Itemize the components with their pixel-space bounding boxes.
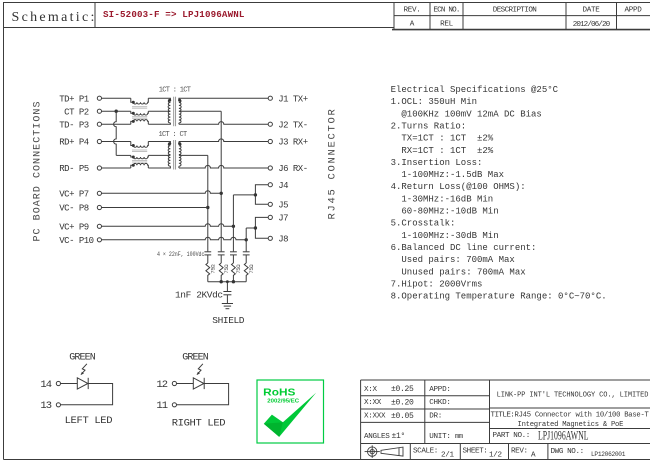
RoHS checkmark [264,393,316,437]
svg-text:8.Operating Temperature Range:: 8.Operating Temperature Range: 0°C~70°C. [391,292,607,302]
pin VC- P10 terminal [97,238,101,242]
wire J4/J5 center to riser [233,194,255,196]
choke CM2 winding a [131,142,149,148]
svg-text:SHEET:: SHEET: [463,448,488,456]
svg-text:1-100MHz:-30dB Min: 1-100MHz:-30dB Min [391,231,499,241]
svg-text:DR:: DR: [429,413,442,421]
vertical bus TX center-tap xB [220,111,222,251]
vertical bus RX center-tap xA [207,155,209,251]
svg-text:TITLE:: TITLE: [491,412,515,420]
svg-text:REL: REL [440,20,454,28]
svg-text:1.OCL: 350uH Min: 1.OCL: 350uH Min [391,97,477,107]
svg-text:VC- P10: VC- P10 [59,236,93,246]
wire choke1 to T1 primary bottom [148,123,170,124]
transformer T1 core [173,97,175,127]
svg-text:GREEN: GREEN [182,353,208,364]
svg-text:RIGHT LED: RIGHT LED [172,418,226,430]
svg-text:RD+ P4: RD+ P4 [59,138,89,148]
svg-text:mm: mm [455,433,463,441]
svg-text:SI-52003-F => LPJ1096AWNL: SI-52003-F => LPJ1096AWNL [103,9,245,20]
transformer T2 secondary winding [179,143,181,166]
wire J6 RX- [178,166,180,168]
svg-text:RD- P5: RD- P5 [59,164,89,174]
wire choke2 to T2 primary top [148,142,170,143]
wire P5 to choke [102,167,131,169]
wire J7/J8 center to riser [246,227,255,229]
resistor R4 75 Ohm [244,263,248,282]
choke CM2 winding b [131,155,149,158]
svg-text:11: 11 [156,400,167,412]
svg-text:1nF 2KVdc: 1nF 2KVdc [175,290,223,301]
wire choke2 to T2 primary center [148,154,170,156]
wire P2 to choke [102,110,131,112]
svg-text:PC BOARD CONNECTIONS: PC BOARD CONNECTIONS [32,100,43,241]
svg-text:1CT : 1CT: 1CT : 1CT [159,87,191,95]
pin J6 terminal [268,166,272,170]
projection symbol [365,445,403,458]
svg-text:@100KHz 100mV 12mA DC Bias: @100KHz 100mV 12mA DC Bias [391,109,542,119]
svg-text:ECN NO.: ECN NO. [433,7,459,15]
svg-text:±1°: ±1° [392,432,406,441]
svg-text:LPJ1096AWNL: LPJ1096AWNL [538,428,589,442]
svg-text:GREEN: GREEN [69,353,95,364]
svg-text:J3 RX+: J3 RX+ [278,138,308,148]
pin RD- P5 terminal [97,166,101,170]
wire P9 to J4/J5 riser [102,224,234,227]
svg-text:A: A [531,451,536,459]
svg-text:UNIT:: UNIT: [429,433,450,441]
pin VC+ P7 terminal [97,191,101,195]
choke CM1 winding b [131,111,149,115]
svg-text:7.Hipot: 2000Vrms: 7.Hipot: 2000Vrms [391,279,483,289]
svg-text:LINK-PP INT'L TECHNOLOGY CO.,: LINK-PP INT'L TECHNOLOGY CO., LIMITED [497,391,649,399]
revision table [393,3,395,30]
pin 14 terminal [56,381,60,385]
choke CM2 winding c [131,163,149,168]
title cell Schematic [4,3,395,28]
svg-text:ANGLES: ANGLES [364,433,390,441]
svg-text:60-80MHz:-10dB Min: 60-80MHz:-10dB Min [391,207,499,217]
wire LEFT LED cathode loop [61,384,113,405]
svg-text:5.Crosstalk:: 5.Crosstalk: [391,219,456,229]
pin RD+ P4 terminal [97,139,101,143]
pin TD- P3 terminal [97,122,101,126]
wire choke1 to T1 primary center [148,110,170,112]
svg-text:TD+ P1: TD+ P1 [59,94,89,104]
svg-text:1-30MHz:-16dB Min: 1-30MHz:-16dB Min [391,194,494,204]
capacitor C4 22nF [243,251,250,253]
svg-text:LEFT LED: LEFT LED [65,415,113,427]
svg-text:X:XX: X:XX [364,399,382,407]
pin J2 terminal [268,122,272,126]
wire P10 to J7/J8 riser [102,237,247,240]
svg-text:RX=1CT : 1CT ±2%: RX=1CT : 1CT ±2% [391,146,494,156]
svg-text:DESCRIPTION: DESCRIPTION [493,7,537,15]
pin J7 terminal [268,215,272,219]
pin J4 terminal [268,183,272,187]
pin VC+ P9 terminal [97,224,101,228]
wire P1 to choke [102,97,131,99]
pin VC- P8 terminal [97,205,101,209]
svg-text:CHKD:: CHKD: [429,399,450,407]
svg-text:Used pairs: 700mA Max: Used pairs: 700mA Max [391,255,515,265]
transformer T2 core [173,140,175,170]
svg-text:DATE: DATE [582,7,600,15]
riser J7/J8 to C4 [245,228,247,251]
svg-text:Electrical Specifications @25°: Electrical Specifications @25°C [391,85,559,95]
title block [360,380,362,460]
svg-text:14: 14 [40,379,51,391]
resistor R3 75 Ohm [232,263,236,282]
riser J4/J5 to C3 [232,195,234,252]
svg-text:TD- P3: TD- P3 [59,120,89,130]
svg-text:12: 12 [156,379,167,391]
wire bus to C5 [226,282,228,292]
svg-text:X:X: X:X [364,386,378,394]
svg-text:J7: J7 [278,214,288,224]
svg-text:VC+ P9: VC+ P9 [59,223,89,233]
svg-text:13: 13 [40,400,51,412]
wire choke2 to T2 primary bottom [148,166,170,168]
LED diode RIGHT LED [193,378,204,389]
wire RIGHT LED cathode loop [177,384,229,405]
svg-text:75Ω: 75Ω [210,264,217,274]
choke CM1 winding c [131,120,149,125]
svg-text:1-100MHz:-1.5dB Max: 1-100MHz:-1.5dB Max [391,170,504,180]
svg-text:Unused pairs: 700mA Max: Unused pairs: 700mA Max [391,267,526,277]
LED diode LEFT LED [77,378,88,389]
photon arrow LEFT LED [81,364,87,375]
wire P8 to RX center-tap bus [102,207,208,209]
resistor R2 75 Ohm [219,263,223,282]
capacitor C3 22nF [230,251,237,253]
wire resistor bottom bus [208,281,246,283]
svg-text:±0.05: ±0.05 [391,412,414,421]
svg-text:J2 TX-: J2 TX- [278,120,307,130]
svg-text:3.Insertion Loss:: 3.Insertion Loss: [391,158,483,168]
svg-text:VC+ P7: VC+ P7 [59,190,89,200]
transformer T1 secondary winding [179,100,181,123]
svg-text:2012/06/20: 2012/06/20 [573,21,611,29]
svg-text:1/2: 1/2 [489,451,503,459]
svg-text:RJ45 Connector with 10/100 Bas: RJ45 Connector with 10/100 Base-T [515,412,650,420]
capacitor C1 22nF [204,251,211,253]
svg-text:±0.25: ±0.25 [391,385,414,394]
svg-text:2002/95/EC: 2002/95/EC [267,399,299,405]
wire J7/J8 pair bracket [255,217,268,238]
wire choke1 to T1 primary top [148,98,170,99]
pin 11 terminal [172,403,176,407]
wire J2 TX- [178,123,180,124]
transformer T2 primary winding [168,143,170,166]
svg-text:4 × 22nF, 100Vdc: 4 × 22nF, 100Vdc [157,251,205,258]
svg-text:75Ω: 75Ω [223,264,230,274]
pin J8 terminal [268,236,272,240]
svg-text:J1 TX+: J1 TX+ [278,94,308,104]
pin J1 terminal [268,96,272,100]
svg-text:RJ45 CONNECTOR: RJ45 CONNECTOR [326,107,338,219]
svg-text:6.Balanced DC line current:: 6.Balanced DC line current: [391,243,537,253]
wire J4/J5 pair bracket [255,185,268,205]
svg-text:J8: J8 [278,235,288,245]
svg-text:2.Turns Ratio:: 2.Turns Ratio: [391,121,467,131]
wire RIGHT LED anode [177,383,194,385]
pin 12 terminal [172,381,176,385]
wire J3 RX+ [178,142,180,143]
wire T1 secondary center tap [179,110,221,112]
photon arrow RIGHT LED [197,364,203,375]
svg-text:X:XXX: X:XXX [364,413,386,421]
svg-text:SHIELD: SHIELD [212,315,245,326]
pin CT P2 terminal [97,109,101,113]
svg-text:1CT : CT: 1CT : CT [158,131,187,139]
svg-text:±0.20: ±0.20 [391,399,414,408]
pin J5 terminal [268,202,272,206]
svg-text:SCALE:: SCALE: [413,448,438,456]
pin 13 terminal [56,403,60,407]
wire P7 to TX center-tap bus [102,191,222,194]
wire P3 to choke [102,123,131,125]
svg-text:REV.: REV. [403,7,420,15]
svg-text:VC- P8: VC- P8 [59,204,89,214]
svg-text:RoHS: RoHS [263,386,295,398]
svg-text:75Ω: 75Ω [248,264,255,274]
svg-text:J6 RX-: J6 RX- [278,164,307,174]
svg-text:REV:: REV: [511,448,528,456]
wire T1 secondary top to J1 [179,98,268,99]
svg-text:PART NO.:: PART NO.: [493,432,530,440]
choke CM1 winding a [131,98,149,104]
svg-text:APPD:: APPD: [429,386,450,394]
RoHS logo [257,380,324,443]
pin TD+ P1 terminal [97,96,101,100]
pin J3 terminal [268,139,272,143]
capacitor C2 22nF [218,251,225,253]
svg-text:Schematic:: Schematic: [12,10,97,25]
wire LEFT LED anode [61,383,78,385]
svg-text:LP12062001: LP12062001 [591,451,626,458]
svg-text:75Ω: 75Ω [235,264,242,274]
svg-text:DWG NO.:: DWG NO.: [551,448,584,456]
transformer T1 primary winding [168,100,170,123]
svg-text:TX=1CT : 1CT ±2%: TX=1CT : 1CT ±2% [391,134,494,144]
svg-text:J5: J5 [278,201,288,211]
svg-text:4.Return Loss(@100 OHMS):: 4.Return Loss(@100 OHMS): [391,182,526,192]
svg-text:A: A [410,20,415,28]
svg-text:J4: J4 [278,181,288,191]
wire P4 to choke [102,141,131,143]
svg-text:APPD: APPD [624,7,642,15]
svg-text:CT P2: CT P2 [59,107,89,117]
resistor R1 75 Ohm [206,263,210,282]
choke CM2 core [132,149,147,151]
svg-text:2/1: 2/1 [441,451,455,459]
wire T2 secondary center tap [179,154,208,156]
choke CM1 core [132,106,147,108]
wire CT branch P2 to lower choke center [114,111,117,155]
ground SHIELD symbol [222,303,233,305]
